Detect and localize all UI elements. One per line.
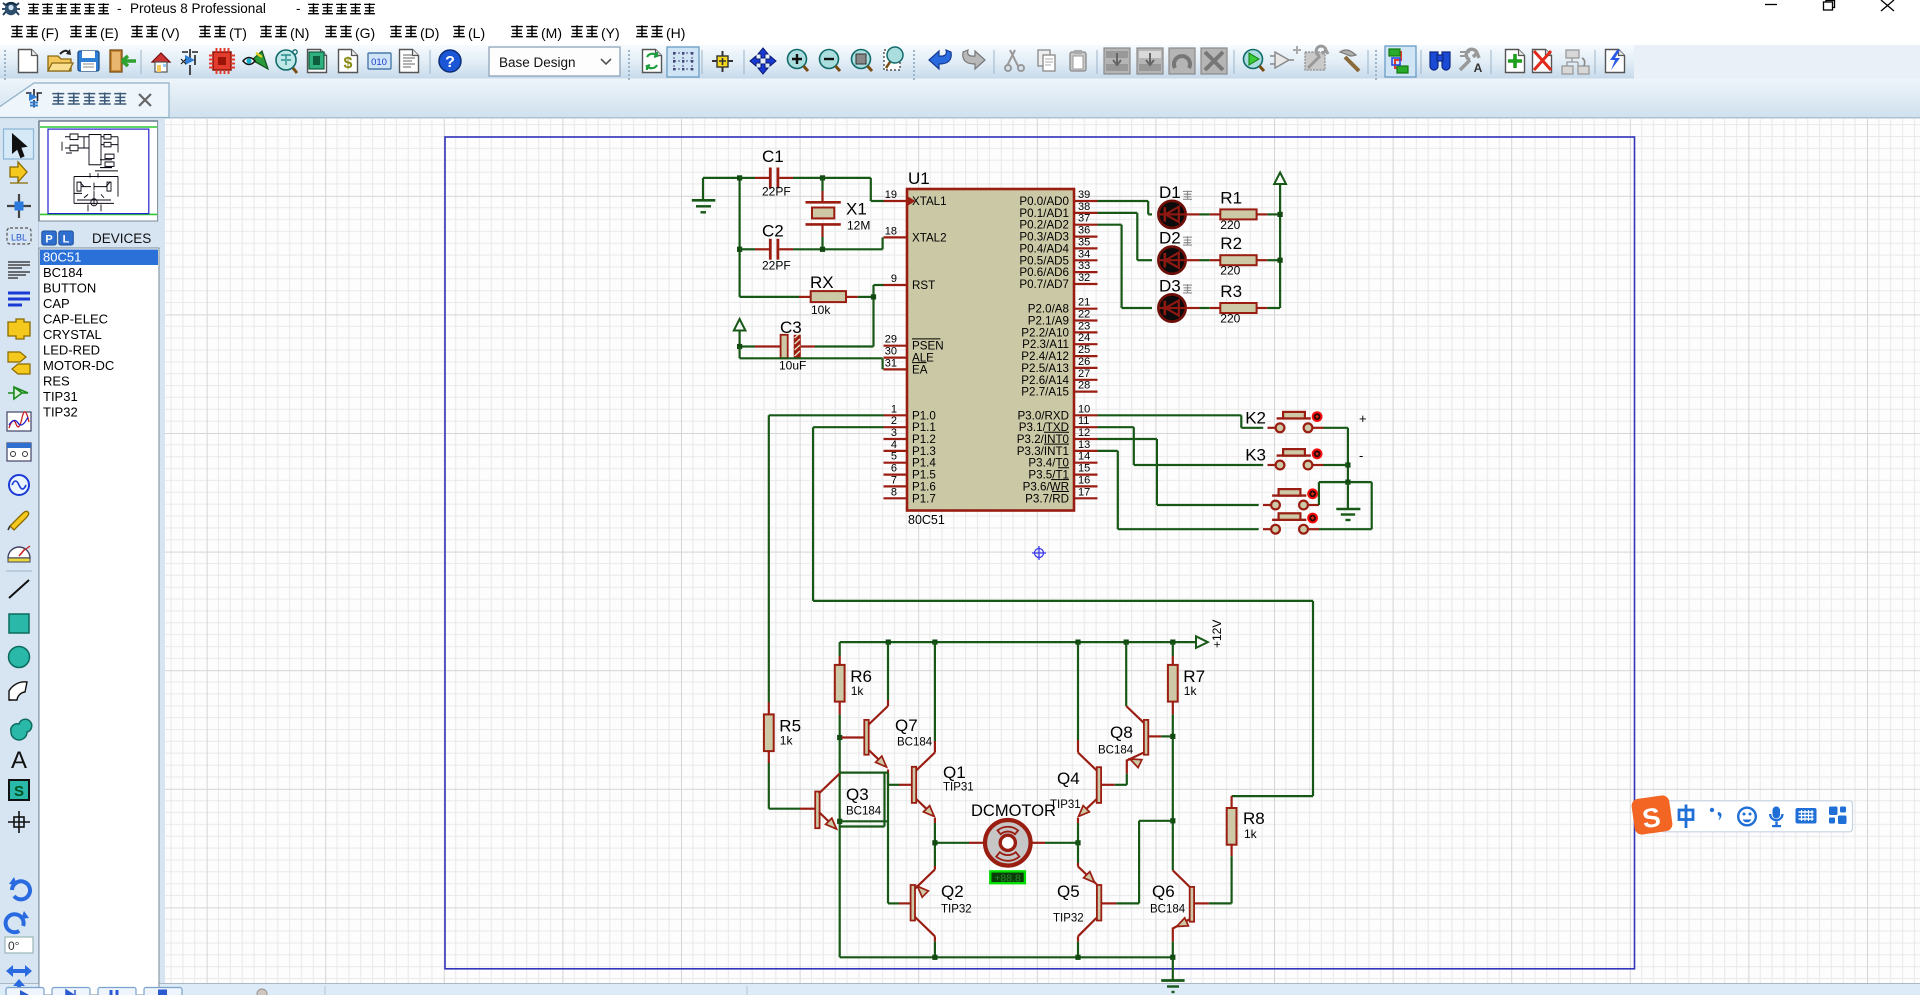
LED D1 (1158, 183, 1192, 228)
wire R7 bottom net (1170, 702, 1175, 871)
wire RST node (871, 285, 884, 347)
svg-text:Base Design: Base Design (499, 55, 576, 70)
svg-text:S: S (14, 783, 24, 800)
svg-text:4: 4 (891, 439, 897, 451)
svg-text:CRYSTAL: CRYSTAL (43, 327, 102, 342)
svg-text:38: 38 (1078, 201, 1090, 213)
svg-text:80C51: 80C51 (908, 513, 945, 527)
svg-text:18: 18 (885, 225, 897, 237)
left sidebar background (0, 119, 38, 995)
svg-text:L: L (63, 234, 70, 246)
svg-text:Q7: Q7 (895, 716, 918, 735)
svg-text:C1: C1 (762, 147, 784, 166)
motor DCMOTOR (932, 802, 1080, 866)
svg-text:D1: D1 (1159, 183, 1181, 202)
wire R6 bottom rail (837, 702, 842, 958)
svg-text:10uF: 10uF (779, 359, 806, 373)
devices header P L buttons (42, 231, 57, 245)
svg-text:Q3: Q3 (846, 785, 869, 804)
wire D1 to R1 (1186, 213, 1210, 215)
resistor R7 1k (1172, 642, 1174, 665)
button K3 (1245, 446, 1323, 470)
svg-text:12M: 12M (847, 219, 870, 233)
svg-text:RST: RST (912, 279, 935, 292)
transistor Q7 BC184 (842, 642, 933, 785)
transistor Q3 BC184 (815, 774, 882, 833)
svg-text:5: 5 (891, 451, 897, 463)
wire R5 to Q3 base (769, 751, 815, 809)
svg-text:R8: R8 (1243, 809, 1265, 828)
wire C2 to XTAL2 (793, 237, 883, 252)
svg-text:-: - (1359, 448, 1363, 463)
wire P0.1 to D2 (1098, 213, 1153, 260)
wire P3.0 to K2 (1098, 415, 1264, 428)
svg-text:(N): (N) (290, 25, 309, 41)
svg-text:P0.7/AD7: P0.7/AD7 (1019, 278, 1069, 291)
svg-text:(G): (G) (355, 25, 375, 41)
svg-text:RES: RES (43, 374, 70, 389)
ground (crystal circuit) (692, 178, 716, 212)
wire D3 to R3 (1186, 307, 1210, 309)
svg-text:36: 36 (1078, 225, 1090, 237)
app icon (2, 3, 20, 15)
svg-text:25: 25 (1078, 344, 1090, 356)
base design combobox (489, 47, 620, 76)
svg-text:DEVICES: DEVICES (92, 231, 151, 246)
ground rail (H-bridge) (840, 955, 1176, 960)
svg-text:LBL: LBL (11, 233, 27, 243)
resistor RX 10k (740, 273, 874, 317)
svg-text:1k: 1k (1184, 684, 1198, 698)
svg-text:23: 23 (1078, 320, 1090, 332)
svg-text:C3: C3 (780, 318, 802, 337)
svg-text:K2: K2 (1245, 408, 1266, 427)
svg-text:R2: R2 (1220, 234, 1242, 253)
ground (buttons) (1336, 482, 1360, 520)
power +5V terminal (LED rail) (1274, 173, 1286, 185)
capacitor C2 (740, 222, 793, 273)
svg-text:P2.7/A15: P2.7/A15 (1021, 386, 1069, 399)
wire P0.2 to D3 (1098, 225, 1153, 308)
wire C1 to XTAL1 node (793, 175, 884, 201)
wire D2 to R2 (1186, 259, 1210, 261)
menu items (11, 25, 685, 41)
svg-text:TIP32: TIP32 (1053, 913, 1084, 925)
svg-text:BC184: BC184 (43, 265, 83, 280)
svg-text:XTAL2: XTAL2 (912, 231, 947, 244)
svg-text:BC184: BC184 (1150, 904, 1186, 916)
svg-text:TIP31: TIP31 (43, 389, 78, 404)
svg-text:CAP: CAP (43, 296, 70, 311)
status bar (0, 983, 1920, 995)
transistor Q4 TIP31 (1050, 642, 1115, 843)
svg-text:3: 3 (891, 427, 897, 439)
svg-text:220: 220 (1220, 264, 1240, 278)
svg-text:(F): (F) (41, 25, 59, 41)
document tab (0, 83, 169, 118)
svg-text:22: 22 (1078, 309, 1090, 321)
svg-text:8: 8 (891, 486, 897, 498)
svg-text:2: 2 (891, 415, 897, 427)
svg-text:D2: D2 (1159, 229, 1181, 248)
U1 right pins (1017, 189, 1098, 505)
wire R7net to Q5 base (1116, 821, 1172, 904)
svg-text:32: 32 (1078, 272, 1090, 284)
overview window (39, 121, 158, 221)
svg-text:Q4: Q4 (1057, 769, 1080, 788)
svg-text:BC184: BC184 (846, 806, 882, 818)
svg-text:A: A (11, 747, 27, 774)
svg-text:9: 9 (891, 273, 897, 285)
wire P3.1 to K3 (1098, 427, 1264, 465)
svg-text:(T): (T) (229, 25, 247, 41)
svg-text:MOTOR-DC: MOTOR-DC (43, 358, 114, 373)
svg-text:+88.8: +88.8 (994, 872, 1021, 884)
svg-text:15: 15 (1078, 463, 1090, 475)
svg-text:BC184: BC184 (1098, 745, 1134, 757)
svg-text:XTAL1: XTAL1 (912, 195, 947, 208)
wire button4 loop (1319, 482, 1372, 529)
tab bar (0, 79, 1920, 119)
svg-text:K3: K3 (1245, 446, 1266, 465)
LED D2 (1158, 229, 1192, 274)
svg-text:6: 6 (891, 463, 897, 475)
LED D3 (1158, 277, 1192, 322)
crystal X1 (806, 178, 871, 249)
svg-text:D3: D3 (1159, 277, 1181, 296)
wire P0.0 to D1 (1098, 201, 1153, 214)
svg-text:U1: U1 (908, 169, 930, 188)
svg-text:(Y): (Y) (601, 25, 620, 41)
svg-text:31: 31 (885, 357, 897, 369)
sogou input toolbar (1631, 795, 1853, 836)
svg-text:(E): (E) (100, 25, 119, 41)
transistor Q5 TIP32 (1053, 843, 1116, 958)
svg-text:R1: R1 (1220, 188, 1242, 207)
menu bar (0, 18, 1920, 45)
window title (28, 1, 375, 16)
svg-text:X1: X1 (846, 200, 867, 219)
wires Q7/Q3 box (840, 773, 888, 904)
svg-text:P: P (45, 234, 52, 246)
svg-text:16: 16 (1078, 474, 1090, 486)
svg-text:39: 39 (1078, 189, 1090, 201)
devices list (39, 248, 159, 995)
wire P3.2 to button 3 (1098, 439, 1259, 505)
motor rpm display (990, 871, 1025, 884)
svg-text:Q5: Q5 (1057, 882, 1080, 901)
svg-text:33: 33 (1078, 260, 1090, 272)
svg-text:Q1: Q1 (943, 763, 966, 782)
svg-text:-: - (296, 1, 301, 16)
svg-text:1k: 1k (1244, 827, 1258, 841)
+12V rail (840, 620, 1224, 648)
resistor R1 220 (1210, 188, 1268, 232)
svg-text:DCMOTOR: DCMOTOR (971, 802, 1056, 820)
wire P1.1 to R8 (813, 427, 1313, 796)
wire K3 to common (1323, 464, 1348, 466)
capacitor C3 10uF (740, 318, 874, 373)
svg-text:80C51: 80C51 (43, 250, 81, 265)
ground (H-bridge) (1161, 957, 1184, 992)
U1 left pins (884, 189, 947, 505)
transistor Q6 BC184 (1150, 870, 1232, 957)
svg-text:TIP32: TIP32 (941, 904, 972, 916)
overview mini schematic (62, 134, 118, 211)
svg-text:?: ? (445, 54, 455, 71)
svg-text:1k: 1k (851, 684, 865, 698)
svg-text:22PF: 22PF (762, 185, 791, 199)
resistor R5 1k (768, 697, 770, 714)
svg-text:24: 24 (1078, 332, 1090, 344)
svg-text:22PF: 22PF (762, 259, 791, 273)
overview sheet rect (48, 129, 149, 214)
svg-text:12: 12 (1078, 427, 1090, 439)
IC U1 80C51 microcontroller (907, 169, 1074, 527)
left tool column (3, 129, 33, 1000)
resistor R3 220 (1210, 282, 1268, 326)
svg-text:220: 220 (1220, 312, 1240, 326)
svg-text:+12V: +12V (1210, 620, 1224, 648)
window buttons (1765, 0, 1894, 11)
svg-text:14: 14 (1078, 451, 1090, 463)
svg-text:35: 35 (1078, 236, 1090, 248)
sheet border (445, 137, 1635, 969)
svg-text:BUTTON: BUTTON (43, 281, 96, 296)
svg-text:37: 37 (1078, 213, 1090, 225)
svg-text:+: + (1359, 411, 1367, 426)
svg-text:(V): (V) (161, 25, 180, 41)
svg-text:P3.7/RD: P3.7/RD (1025, 492, 1069, 505)
svg-text:(M): (M) (541, 25, 562, 41)
svg-text:(L): (L) (468, 25, 485, 41)
wire +5V to EA (737, 344, 883, 370)
svg-text:C2: C2 (762, 222, 784, 241)
svg-text:TIP31: TIP31 (943, 782, 974, 794)
svg-text:11: 11 (1078, 415, 1089, 427)
svg-text:Q2: Q2 (941, 882, 964, 901)
button K2 (1245, 408, 1323, 432)
svg-text:Q6: Q6 (1152, 882, 1175, 901)
transistor Q2 TIP32 (888, 843, 972, 958)
svg-text:17: 17 (1078, 486, 1090, 498)
wire K2 to common (1323, 428, 1350, 482)
toolbar background (0, 45, 1920, 79)
svg-text:10: 10 (1078, 403, 1090, 415)
svg-text:(H): (H) (666, 25, 685, 41)
transistor Q8 BC184 (1098, 642, 1173, 785)
power +5V terminal (734, 319, 746, 347)
svg-text:26: 26 (1078, 356, 1090, 368)
svg-text:29: 29 (885, 334, 897, 346)
wire ground to C1 (703, 177, 740, 179)
svg-text:13: 13 (1078, 439, 1090, 451)
svg-text:19: 19 (885, 189, 897, 201)
svg-text:30: 30 (885, 346, 897, 358)
svg-text:0°: 0° (8, 939, 20, 953)
svg-text:10k: 10k (811, 303, 831, 317)
resistor R2 220 (1210, 234, 1268, 278)
svg-text:27: 27 (1078, 368, 1090, 380)
resistor R6 1k (839, 642, 841, 665)
svg-text:Q8: Q8 (1110, 723, 1133, 742)
svg-text:LED-RED: LED-RED (43, 343, 100, 358)
toolbar (5, 46, 1625, 80)
svg-text:P1.7: P1.7 (912, 492, 936, 505)
svg-text:21: 21 (1078, 297, 1090, 309)
svg-text:EA: EA (912, 363, 928, 376)
svg-text:1: 1 (891, 403, 897, 415)
transistor Q1 TIP31 (888, 642, 974, 843)
svg-text:7: 7 (891, 474, 897, 486)
svg-text:R3: R3 (1220, 282, 1242, 301)
svg-text:1k: 1k (780, 733, 794, 747)
svg-text:TIP32: TIP32 (43, 405, 78, 420)
svg-text:Proteus 8 Professional: Proteus 8 Professional (130, 1, 266, 16)
svg-text:TIP31: TIP31 (1050, 799, 1081, 811)
svg-text:RX: RX (810, 273, 834, 292)
button (P3.2) (1263, 489, 1319, 509)
wire R8 to Q6 base (1230, 845, 1232, 904)
canvas background (165, 119, 1920, 983)
svg-text:220: 220 (1220, 218, 1240, 232)
wire R1 R2 R3 to +5V rail (1267, 185, 1282, 308)
status bar items (6, 986, 747, 1000)
svg-text:010: 010 (371, 57, 387, 68)
svg-text:28: 28 (1078, 380, 1090, 392)
node C1-left vertical (737, 175, 742, 297)
capacitor C1 (740, 147, 793, 199)
button (P3.3) (1263, 513, 1319, 533)
svg-text:-: - (117, 1, 122, 16)
svg-text:A: A (1474, 61, 1483, 75)
svg-text:(D): (D) (420, 25, 439, 41)
wire button3 to ground net (1319, 480, 1372, 506)
sheet centre marker (1032, 546, 1046, 560)
resistor R8 1k (1230, 796, 1232, 808)
title bar (0, 0, 1920, 18)
svg-text:34: 34 (1078, 248, 1090, 260)
wire P1.0 to R5 (769, 415, 884, 697)
svg-text:CAP-ELEC: CAP-ELEC (43, 312, 108, 327)
svg-text:$: $ (344, 55, 353, 72)
wire P3.3 to button 4 (1098, 451, 1259, 529)
svg-text:BC184: BC184 (897, 737, 933, 749)
